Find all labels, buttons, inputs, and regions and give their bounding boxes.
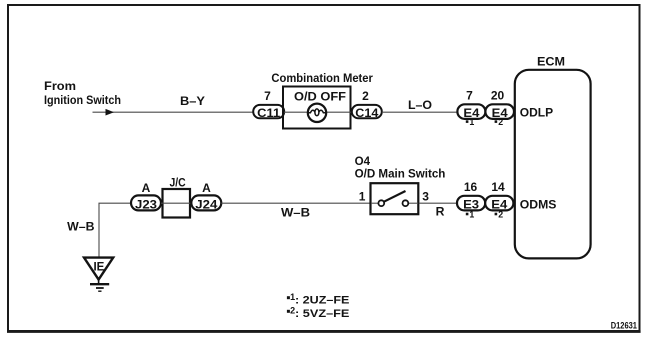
switch contact 1	[378, 200, 384, 206]
svg-text:C14: C14	[355, 106, 378, 120]
switch contact 3	[403, 200, 409, 206]
svg-text:From: From	[44, 79, 76, 93]
svg-text:1: 1	[469, 210, 474, 220]
wire through J/C	[161, 202, 192, 204]
svg-text:ODLP: ODLP	[520, 105, 553, 119]
connector C14	[352, 105, 382, 120]
svg-text:D12631: D12631	[611, 320, 637, 330]
svg-text:J24: J24	[195, 197, 217, 211]
svg-text:ECM: ECM	[537, 55, 565, 69]
wire J23 to ground corner (W-B)	[99, 203, 131, 257]
wire J24 to switch (W-B)	[221, 202, 370, 204]
svg-text:1: 1	[359, 189, 366, 203]
switch box O4	[371, 183, 419, 214]
note *1 (upper)	[466, 117, 475, 127]
svg-text:O/D OFF: O/D OFF	[294, 89, 346, 103]
svg-text:L–O: L–O	[408, 98, 432, 112]
svg-text:7: 7	[466, 88, 473, 102]
svg-text:J/C: J/C	[170, 176, 186, 190]
note *1 (lower)	[466, 210, 475, 220]
svg-text:2: 2	[498, 117, 503, 127]
svg-text:IE: IE	[93, 261, 104, 273]
connector E4 pin20	[485, 104, 514, 120]
footnote *1: 2UZ-FE	[287, 292, 350, 307]
svg-text:20: 20	[491, 88, 505, 102]
svg-text:2: 2	[362, 89, 369, 103]
svg-text:R: R	[436, 205, 445, 219]
svg-text:Combination Meter: Combination Meter	[271, 71, 373, 85]
arrow on ignition feed wire	[106, 109, 115, 116]
junction connector J/C box	[163, 189, 191, 218]
ECM box	[515, 70, 591, 259]
svg-text:3: 3	[422, 189, 429, 203]
connector J24	[191, 195, 221, 211]
svg-text:1: 1	[469, 117, 474, 127]
svg-text:2: 2	[498, 210, 503, 220]
connector E4 pin7	[457, 104, 485, 120]
svg-text:W–B: W–B	[67, 219, 94, 233]
ground IE	[84, 258, 113, 292]
svg-text:: 2UZ–FE: : 2UZ–FE	[295, 295, 350, 307]
wire through combination meter	[284, 111, 351, 113]
wire ignition switch to C11 (B-Y)	[93, 111, 254, 113]
combination meter box	[283, 87, 351, 129]
svg-text:O/D Main Switch: O/D Main Switch	[355, 167, 446, 181]
connector C11	[253, 105, 284, 120]
svg-text:16: 16	[464, 180, 478, 194]
wire switch to E3 (R)	[419, 202, 457, 204]
label From Ignition Switch	[44, 79, 121, 107]
svg-text:W–B: W–B	[281, 206, 310, 220]
svg-text:C11: C11	[257, 106, 280, 120]
note *2 (lower)	[495, 210, 504, 220]
footnote *2: 5VZ-FE	[287, 305, 350, 320]
switch lever	[384, 191, 406, 202]
svg-text:J23: J23	[135, 197, 157, 211]
wire inside switch	[371, 202, 378, 204]
svg-text:Ignition Switch: Ignition Switch	[44, 93, 121, 107]
svg-text:7: 7	[264, 89, 271, 103]
svg-text:A: A	[142, 181, 151, 195]
svg-text:A: A	[202, 181, 211, 195]
svg-text:14: 14	[491, 180, 505, 194]
svg-text:B–Y: B–Y	[180, 94, 205, 108]
O/D OFF indicator lamp	[308, 104, 326, 122]
note *2 (upper)	[495, 117, 504, 127]
connector E3	[457, 196, 485, 212]
svg-text:ODMS: ODMS	[520, 197, 557, 211]
connector J23	[131, 195, 161, 211]
connector E4 pin14	[485, 196, 513, 212]
wire C14 to E4 (L-O)	[382, 111, 458, 113]
svg-text:: 5VZ–FE: : 5VZ–FE	[295, 308, 350, 320]
